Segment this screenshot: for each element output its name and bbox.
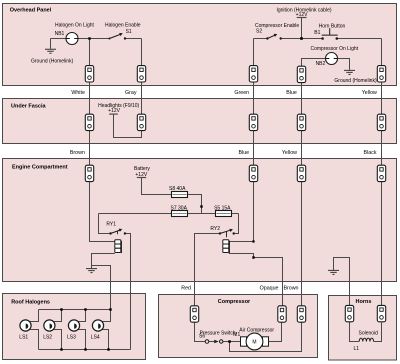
svg-text:Solenoid: Solenoid [359, 331, 379, 337]
svg-text:NB2: NB2 [316, 61, 326, 67]
svg-text:RY1: RY1 [106, 221, 116, 227]
svg-text:Roof Halogens: Roof Halogens [11, 300, 50, 306]
svg-text:Halogen On Light: Halogen On Light [55, 23, 95, 29]
svg-text:S8 40A: S8 40A [169, 186, 186, 192]
svg-text:S7 30A: S7 30A [171, 206, 188, 212]
svg-text:+12V: +12V [296, 12, 308, 18]
svg-text:Horns: Horns [356, 299, 372, 305]
svg-text:+12V: +12V [108, 108, 120, 114]
svg-text:LS4: LS4 [91, 335, 100, 341]
svg-text:Engine Compartment: Engine Compartment [12, 165, 68, 171]
svg-text:Blue: Blue [286, 90, 297, 96]
svg-text:LS1: LS1 [19, 335, 28, 341]
svg-text:NB1: NB1 [55, 31, 65, 37]
svg-text:S6: S6 [199, 334, 205, 340]
svg-text:White: White [71, 90, 85, 96]
svg-text:Blue: Blue [238, 150, 249, 156]
svg-text:RY2: RY2 [210, 226, 220, 232]
svg-text:Brown: Brown [283, 285, 298, 291]
svg-text:+12V: +12V [135, 172, 147, 178]
svg-text:Overhead Panel: Overhead Panel [10, 7, 52, 13]
svg-text:LS2: LS2 [43, 335, 52, 341]
svg-text:S5 15A: S5 15A [214, 206, 231, 212]
svg-text:Compressor On Light: Compressor On Light [311, 46, 359, 52]
svg-text:Under Fascia: Under Fascia [11, 103, 46, 109]
svg-text:B1: B1 [314, 30, 320, 36]
svg-text:Green: Green [234, 90, 249, 96]
svg-text:Opaque: Opaque [260, 285, 279, 291]
svg-text:Ground (Homelink): Ground (Homelink) [334, 78, 377, 84]
svg-text:M1: M1 [233, 332, 240, 338]
svg-text:S1: S1 [126, 29, 132, 35]
svg-text:Horn Button: Horn Button [319, 23, 346, 29]
svg-text:Ground (Homelink): Ground (Homelink) [31, 59, 74, 65]
svg-text:Compressor: Compressor [218, 299, 251, 305]
svg-text:L1: L1 [354, 346, 360, 352]
svg-text:LS3: LS3 [67, 335, 76, 341]
svg-text:S2: S2 [256, 29, 262, 35]
svg-text:M: M [252, 340, 256, 346]
svg-text:Halogen Enable: Halogen Enable [105, 23, 141, 29]
svg-text:Brown: Brown [70, 150, 85, 156]
svg-text:Red: Red [181, 285, 191, 291]
svg-text:Gray: Gray [125, 90, 137, 96]
svg-text:Black: Black [364, 150, 377, 156]
svg-text:Yellow: Yellow [362, 90, 377, 96]
svg-text:Yellow: Yellow [282, 150, 297, 156]
svg-text:Air Compressor: Air Compressor [239, 328, 274, 334]
